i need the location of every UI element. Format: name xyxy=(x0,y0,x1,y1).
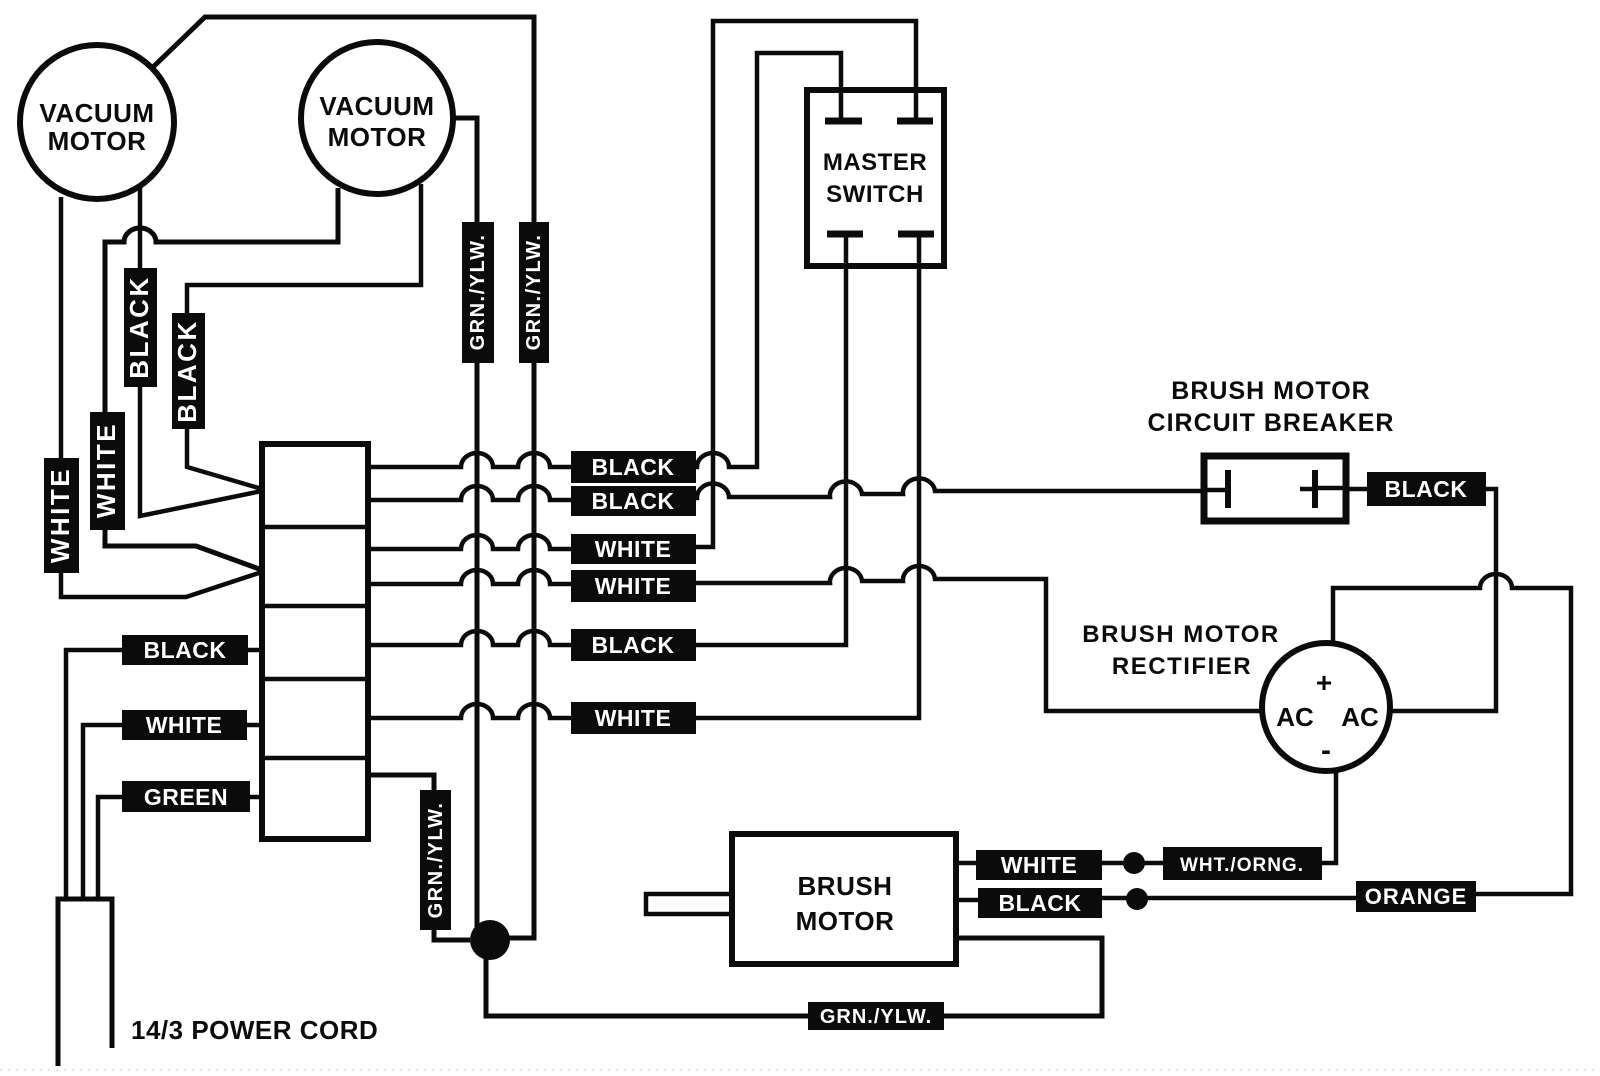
label: WHITE (far left vertical) xyxy=(44,458,79,573)
svg-text:GRN./YLW.: GRN./YLW. xyxy=(425,802,447,919)
svg-text:WHT./ORNG.: WHT./ORNG. xyxy=(1180,855,1304,876)
master switch U1 xyxy=(807,90,944,266)
wire: row3 white from block to riser up to master switch pin 2 xyxy=(368,535,585,549)
svg-text:ORANGE: ORANGE xyxy=(1365,884,1468,909)
label: BLACK row2 xyxy=(571,486,696,516)
wire: junction down to bottom GRN/YLW run to brush motor xyxy=(486,938,1102,1016)
wire: motor1 ground diagonal to top bus and GRN/YLW drop to junction xyxy=(151,17,534,938)
wire: row2 black from block to brush motor circuit breaker with hops xyxy=(368,486,585,500)
wire: white label to block cell 4 stub xyxy=(247,723,262,728)
label: GRN./YLW. (vertical left) xyxy=(462,222,494,363)
label: BLACK (brush motor) xyxy=(978,888,1102,918)
svg-text:VACUUM: VACUUM xyxy=(39,98,154,128)
svg-text:BLACK: BLACK xyxy=(124,275,154,379)
label: WHITE (brush motor) xyxy=(976,850,1102,880)
node: white/orange splice xyxy=(1123,852,1145,874)
svg-text:MOTOR: MOTOR xyxy=(48,126,147,156)
master switch pin 3 contact xyxy=(827,234,863,266)
label: BLACK row1 xyxy=(571,451,696,483)
label: circuit breaker title xyxy=(1148,377,1395,437)
master switch pin 1 contact xyxy=(825,90,862,121)
label: ORANGE xyxy=(1356,881,1476,912)
vacuum motor M1 xyxy=(20,45,174,199)
label: GRN./YLW. (vertical right) xyxy=(519,222,549,363)
terminal block xyxy=(262,444,368,839)
svg-text:WHITE: WHITE xyxy=(595,705,672,731)
wire: power cord green conductor xyxy=(98,797,124,899)
wire: power cord white conductor xyxy=(83,725,124,899)
label: BLACK (vertical, motor1) xyxy=(124,268,157,387)
wire: motor1 right lead (BLACK) down to taper into terminal block cell 1 xyxy=(140,186,262,516)
svg-text:WHITE: WHITE xyxy=(1001,852,1078,878)
svg-text:-: - xyxy=(1321,734,1331,767)
brush motor shaft xyxy=(646,894,732,914)
label: WHITE row3 xyxy=(571,534,696,564)
svg-text:MOTOR: MOTOR xyxy=(796,906,895,936)
svg-text:GRN./YLW.: GRN./YLW. xyxy=(820,1006,932,1028)
wire: row5 black from block to riser up to master switch pin 3 xyxy=(368,631,585,645)
label: GRN./YLW. (bottom run) xyxy=(808,1002,944,1030)
svg-text:BLACK: BLACK xyxy=(172,319,202,423)
svg-text:BLACK: BLACK xyxy=(592,488,675,514)
svg-text:BLACK: BLACK xyxy=(592,632,675,658)
label: rectifier title xyxy=(1082,621,1279,680)
decorative scan line xyxy=(0,1069,1600,1071)
label: BLACK row5 xyxy=(571,629,696,661)
svg-text:+: + xyxy=(1316,667,1332,698)
svg-text:WHITE: WHITE xyxy=(45,467,75,563)
label: WHITE row4 xyxy=(571,570,696,602)
label: WHT./ORNG. xyxy=(1163,847,1322,880)
brush motor rectifier D1 xyxy=(1262,643,1390,771)
svg-text:AC: AC xyxy=(1341,702,1379,732)
master switch pin 2 contact xyxy=(897,90,933,121)
wire: row4 white from block to rectifier AC left with hops xyxy=(368,570,585,584)
svg-text:WHITE: WHITE xyxy=(595,536,672,562)
wire: motor2 right-bottom lead across y285, down through BLACK label to cell 1 taper xyxy=(187,184,421,489)
svg-text:BRUSH MOTOR: BRUSH MOTOR xyxy=(1171,377,1370,405)
wire: ORANGE run to brush motor black lead xyxy=(1102,896,1356,901)
svg-text:SWITCH: SWITCH xyxy=(826,181,924,208)
svg-text:MASTER: MASTER xyxy=(823,149,927,176)
svg-text:BLACK: BLACK xyxy=(999,890,1082,916)
wire: breaker to BLACK label to rectifier AC right xyxy=(1346,489,1496,711)
power cord sheath xyxy=(58,899,112,1066)
svg-text:CIRCUIT BREAKER: CIRCUIT BREAKER xyxy=(1148,409,1395,437)
wire: rectifier minus terminal down to WHT./ORNG. xyxy=(1322,769,1336,863)
wire: brush motor white stub xyxy=(956,861,976,866)
label: BLACK (left horizontal) xyxy=(122,635,248,665)
svg-text:14/3 POWER CORD: 14/3 POWER CORD xyxy=(131,1015,378,1045)
svg-text:MOTOR: MOTOR xyxy=(328,122,427,152)
wire: black label to block cell 3 stub xyxy=(248,648,262,653)
junction node xyxy=(470,920,510,960)
wire: power cord black conductor xyxy=(66,650,124,899)
svg-text:GRN./YLW.: GRN./YLW. xyxy=(523,234,545,351)
label: GREEN (left horizontal) xyxy=(122,781,250,812)
brush motor circuit breaker CB1 xyxy=(1204,456,1346,521)
wire: motor2 left lead across y242 with hop, down through WHITE label to cell 2 taper xyxy=(105,188,338,570)
wire: row6 white from block to riser up to master switch pin 4 xyxy=(368,704,585,718)
wire: brush motor black stub xyxy=(956,898,978,903)
wire: WHT./ORNG. to brush motor white lead xyxy=(1102,861,1163,866)
label: BLACK (vertical, motor2) xyxy=(172,313,205,429)
svg-text:BLACK: BLACK xyxy=(592,454,675,480)
svg-text:WHITE: WHITE xyxy=(595,573,672,599)
svg-text:GREEN: GREEN xyxy=(144,784,228,810)
label: BLACK (breaker output) xyxy=(1367,472,1486,506)
wire: motor2 right lead down GRN/YLW to junction xyxy=(451,118,477,930)
svg-text:GRN./YLW.: GRN./YLW. xyxy=(467,234,489,351)
svg-text:WHITE: WHITE xyxy=(91,422,121,518)
label: WHITE row6 xyxy=(571,702,696,734)
node: black/orange splice xyxy=(1126,888,1148,910)
svg-text:BRUSH MOTOR: BRUSH MOTOR xyxy=(1082,621,1279,648)
vacuum motor M2 xyxy=(301,42,453,194)
label: GRN./YLW. (vertical bottom) xyxy=(420,790,451,930)
label: WHITE (second vertical) xyxy=(90,412,125,530)
svg-text:BLACK: BLACK xyxy=(144,637,227,663)
svg-text:BRUSH: BRUSH xyxy=(798,871,893,901)
wire: green label to block cell 5 stub xyxy=(250,795,262,800)
svg-text:AC: AC xyxy=(1276,702,1314,732)
wire: rectifier plus terminal loop to ORANGE xyxy=(1333,574,1571,894)
master switch pin 4 contact xyxy=(898,234,934,266)
wire: motor1 left lead (WHITE) down to taper into terminal block cell 2 xyxy=(61,197,262,597)
svg-text:BLACK: BLACK xyxy=(1385,476,1468,502)
wire: block cell 5 to GRN/YLW drop and junction xyxy=(368,775,470,940)
svg-text:RECTIFIER: RECTIFIER xyxy=(1112,653,1252,680)
brush motor M3 xyxy=(732,834,956,964)
svg-text:VACUUM: VACUUM xyxy=(319,91,434,121)
svg-text:WHITE: WHITE xyxy=(146,712,223,738)
label: WHITE (left horizontal) xyxy=(122,710,247,740)
wire: row1 black from block over GRN/YLW hops to label, riser to master switch pin 1 xyxy=(368,53,841,467)
